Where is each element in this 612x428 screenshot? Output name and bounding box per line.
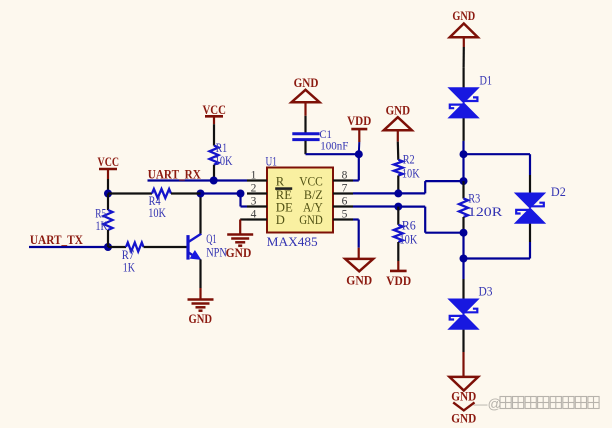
- label C1: [319, 129, 332, 141]
- node junction bus A bottom: [460, 255, 468, 263]
- wire pin 5 to ground: [353, 220, 359, 259]
- pin name DE: [276, 201, 293, 215]
- svg-text:VCC: VCC: [299, 175, 323, 189]
- wire C1 to VDD node: [306, 153, 359, 155]
- svg-text:D: D: [276, 213, 285, 227]
- power VDD (bottom): [390, 261, 407, 271]
- label 100nF: [320, 141, 348, 153]
- pin name B/Z: [304, 188, 323, 202]
- net label UART_RX: [148, 167, 202, 181]
- label D3: [479, 284, 493, 298]
- wire pin2 line: [201, 192, 241, 194]
- wire pin 7 to R2 node: [353, 192, 398, 194]
- svg-text:7: 7: [342, 183, 348, 195]
- label 120R (R3): [468, 205, 504, 219]
- diode D3 pins: [462, 279, 464, 352]
- node junction pin2/pin3: [237, 190, 245, 198]
- wire RX to pin 1: [214, 179, 247, 181]
- label D1: [480, 74, 493, 88]
- label MAX485: [267, 235, 318, 249]
- pin 1 stub: [247, 179, 267, 181]
- diode D1: [449, 88, 479, 118]
- ground pin 4: [227, 220, 253, 246]
- power label GND (R2): [386, 103, 410, 117]
- label 10K (R4): [148, 206, 166, 220]
- svg-text:U1: U1: [266, 155, 277, 169]
- wire D3 to ground: [462, 352, 464, 377]
- ground flag above D1: [450, 24, 478, 48]
- power label GND (second): [451, 412, 476, 426]
- label 10K (R1): [215, 154, 233, 168]
- resistor R1: [210, 124, 219, 180]
- label R2: [403, 152, 415, 166]
- pin name VCC: [299, 175, 323, 189]
- power VCC (left): [99, 169, 117, 194]
- pin number 5: [342, 209, 348, 221]
- svg-text:VCC: VCC: [98, 155, 120, 169]
- power label GND (pin5): [346, 273, 372, 287]
- svg-text:GND: GND: [226, 246, 252, 260]
- power label VDD (bottom): [386, 274, 411, 288]
- svg-text:GND: GND: [451, 412, 476, 424]
- node junction R2/pin7: [394, 189, 402, 197]
- node junction R3 top: [460, 177, 468, 185]
- pin 7 stub: [333, 192, 353, 194]
- pin number 3: [251, 196, 257, 208]
- svg-text:2: 2: [251, 183, 257, 195]
- wire bus B segment: [462, 154, 464, 181]
- label Q1: [206, 232, 216, 246]
- op-amp U1 MAX485 body: [267, 168, 333, 233]
- pin 4 stub: [247, 218, 267, 220]
- svg-text:100nF: 100nF: [320, 141, 348, 153]
- svg-text:D2: D2: [551, 185, 566, 199]
- svg-text:1K: 1K: [123, 261, 135, 275]
- power label GND (C1): [294, 76, 319, 90]
- node junction UART_TX/R5/R7: [104, 243, 112, 251]
- wire VDD node to pin 8: [353, 154, 359, 180]
- label D2: [551, 185, 566, 199]
- svg-text:D1: D1: [480, 74, 493, 88]
- pin name A/Y: [303, 201, 323, 215]
- watermark text: [474, 396, 600, 412]
- svg-text:GND: GND: [386, 103, 410, 117]
- power VDD (top): [351, 129, 367, 154]
- svg-text:R6: R6: [402, 218, 416, 232]
- svg-text:10K: 10K: [402, 166, 420, 180]
- svg-text:C1: C1: [319, 129, 332, 141]
- pin name D: [276, 213, 285, 227]
- resistor R4: [108, 189, 201, 198]
- svg-text:Q1: Q1: [206, 232, 216, 246]
- svg-text:R: R: [276, 175, 285, 189]
- label R7: [122, 248, 135, 262]
- svg-text:VDD: VDD: [386, 274, 411, 288]
- label 10K (R2): [402, 166, 420, 180]
- wire Q1 collector: [199, 194, 201, 234]
- pin number 8: [342, 170, 348, 182]
- resistor R2: [394, 142, 403, 194]
- wire node to D2 top: [464, 154, 531, 175]
- svg-text:1K: 1K: [96, 219, 108, 233]
- power VCC (R1): [205, 116, 223, 124]
- ground flag above R2: [384, 117, 412, 141]
- diode D2 pins: [529, 175, 531, 242]
- pin 6 stub: [333, 205, 353, 207]
- svg-text:—@: —@: [474, 396, 502, 412]
- wire node to D3: [462, 259, 464, 280]
- node junction C1/VDD/pin8: [355, 150, 363, 158]
- transistor Q1: [188, 234, 201, 260]
- label R3: [468, 192, 480, 206]
- pin number 7: [342, 183, 348, 195]
- power label VCC (left): [98, 155, 120, 169]
- svg-text:1: 1: [251, 170, 257, 182]
- label NPN: [206, 245, 227, 259]
- ground flag above C1: [292, 90, 320, 116]
- wire D2 bottom to node: [464, 242, 531, 259]
- wire pin 6 to R6 node: [353, 205, 398, 207]
- ground flag pin 5: [345, 259, 373, 271]
- pin name RE overline: [275, 187, 292, 190]
- power label VCC (R1): [202, 103, 226, 117]
- power label GND (D1): [452, 9, 475, 23]
- svg-text:3: 3: [251, 196, 257, 208]
- wire UART_TX net: [29, 246, 108, 248]
- pin name R: [276, 175, 285, 189]
- svg-text:6: 6: [342, 196, 348, 208]
- svg-text:MAX485: MAX485: [267, 235, 318, 249]
- wire R2 node jog to bus B: [398, 181, 463, 193]
- wire jog to pin 3: [241, 194, 248, 207]
- resistor R6: [394, 207, 403, 261]
- svg-text:GND: GND: [189, 312, 213, 326]
- svg-text:GND: GND: [299, 213, 323, 227]
- pin number 2: [251, 183, 257, 195]
- power label GND (Q1): [189, 312, 213, 326]
- node junction VCC/R4/R5: [104, 190, 112, 198]
- node junction bus B top: [460, 150, 468, 158]
- diode D1 pins: [463, 68, 465, 141]
- svg-text:GND: GND: [346, 273, 372, 287]
- label R6: [402, 218, 416, 232]
- svg-text:VDD: VDD: [347, 114, 371, 128]
- svg-text:8: 8: [342, 170, 348, 182]
- svg-text:UART_TX: UART_TX: [30, 233, 84, 247]
- node junction R6/pin6: [394, 203, 402, 211]
- pin 2 stub: [247, 192, 267, 194]
- pin 8 stub: [333, 179, 353, 181]
- label 1K (R7): [123, 261, 135, 275]
- svg-text:10K: 10K: [400, 233, 418, 247]
- pin number 6: [342, 196, 348, 208]
- svg-text:5: 5: [342, 209, 348, 221]
- label 1K (R5): [96, 219, 108, 233]
- pin name GND: [299, 213, 323, 227]
- label 10K (R6): [400, 233, 418, 247]
- ground flag chevron (second GND): [453, 402, 474, 410]
- pin name RE: [276, 188, 292, 202]
- resistor R5: [104, 194, 113, 248]
- resistor R3: [459, 181, 468, 233]
- svg-text:R2: R2: [403, 152, 415, 166]
- svg-text:UART_RX: UART_RX: [148, 167, 202, 181]
- resistor R7: [108, 243, 188, 252]
- wire GND to D1: [463, 47, 465, 68]
- wire UART_RX net: [148, 179, 214, 181]
- svg-text:D3: D3: [479, 284, 493, 298]
- diode D3: [449, 299, 479, 329]
- capacitor C1: [292, 116, 319, 154]
- svg-text:GND: GND: [452, 9, 475, 23]
- label R1: [216, 141, 227, 155]
- wire R6 node jog to bus A: [398, 207, 463, 233]
- svg-text:120R: 120R: [468, 205, 504, 219]
- pin 3 stub: [247, 205, 267, 207]
- svg-text:GND: GND: [294, 76, 319, 90]
- pin 5 stub: [333, 218, 353, 220]
- svg-text:NPN: NPN: [206, 245, 227, 259]
- diode D2: [515, 193, 545, 223]
- power label VDD (top): [347, 114, 371, 128]
- label R4: [149, 194, 161, 208]
- power label GND (pin4): [226, 246, 252, 260]
- node junction R3 bottom: [460, 229, 468, 237]
- wire Q1 emitter: [199, 259, 201, 288]
- net label UART_TX: [30, 233, 84, 247]
- node junction R4/pin2/collector: [197, 190, 205, 198]
- svg-text:4: 4: [251, 209, 257, 221]
- power label GND (D3): [451, 390, 476, 404]
- label U1: [266, 155, 277, 169]
- pin number 4: [251, 209, 257, 221]
- wire D1 to node: [462, 141, 464, 154]
- label R5: [95, 207, 106, 221]
- pin number 1: [251, 170, 257, 182]
- svg-text:R3: R3: [468, 192, 480, 206]
- svg-text:10K: 10K: [148, 206, 166, 220]
- ground Q1 emitter: [188, 288, 214, 311]
- ground flag below D3: [450, 377, 479, 391]
- wire bus A segment: [462, 233, 464, 259]
- node junction RX/R1/pin1: [210, 177, 218, 185]
- svg-text:10K: 10K: [215, 154, 233, 168]
- svg-text:VCC: VCC: [202, 103, 226, 117]
